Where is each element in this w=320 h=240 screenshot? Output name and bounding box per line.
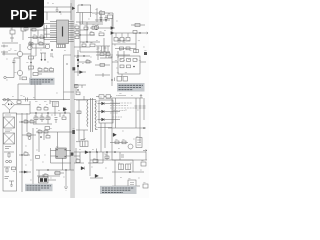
terminal J4 — [143, 184, 148, 188]
resistor R36 — [134, 50, 139, 53]
diode D13 — [144, 52, 147, 55]
rectifier frame — [99, 100, 113, 123]
SECTION bottom center — [37, 170, 68, 190]
wire — [108, 54, 146, 86]
node — [129, 171, 131, 173]
wire — [2, 101, 30, 114]
wire — [37, 170, 66, 186]
node — [47, 169, 48, 170]
resistor R76 — [75, 85, 79, 88]
resistor R15 — [50, 69, 54, 72]
resistor R10 — [29, 56, 34, 59]
SECTION transformer — [76, 96, 98, 140]
SECTION pwm ic — [28, 49, 74, 190]
resistor R67 — [76, 92, 80, 95]
label — [5, 147, 11, 149]
info box left — [29, 78, 55, 85]
resistor R45 — [38, 131, 42, 134]
SECTION center bottom grid — [30, 107, 70, 124]
capacitor C23 — [123, 77, 128, 82]
wire frame lower — [90, 160, 133, 172]
capacitor C20 — [100, 15, 103, 22]
wire frame — [64, 55, 75, 100]
regulator U4 — [136, 138, 142, 148]
info box right — [117, 83, 145, 92]
node — [83, 55, 84, 56]
node — [133, 66, 135, 68]
capacitor C22 — [117, 77, 122, 82]
wire — [38, 73, 42, 75]
resistor R79 — [45, 127, 50, 130]
SECTION bottom right corner — [112, 160, 148, 188]
wire — [76, 96, 98, 140]
inductor L2 crossed — [4, 133, 15, 144]
label B+ — [118, 95, 126, 97]
resistor array RN1 — [57, 45, 66, 48]
wire — [90, 8, 115, 28]
wire columns — [112, 98, 144, 128]
connector P1 — [40, 53, 46, 59]
ic U2 pads — [56, 149, 66, 157]
capacitor bank C24 — [116, 33, 128, 37]
resistor R73 — [120, 65, 124, 68]
diode D3 — [102, 118, 105, 121]
resistor R49 — [93, 160, 98, 163]
ground symbol top — [56, 7, 59, 11]
node — [89, 151, 91, 153]
wire bottom rail — [108, 127, 146, 129]
terminal arrow up — [140, 95, 142, 99]
wire — [116, 51, 130, 58]
ic U2 body — [56, 148, 66, 158]
SECTION output filter grid — [106, 95, 146, 129]
resistor R32 — [106, 53, 110, 56]
wire — [114, 78, 116, 82]
diode D6 — [24, 171, 27, 173]
capacitor C5 — [26, 98, 28, 102]
resistor R30 — [86, 61, 90, 64]
wire — [9, 181, 14, 187]
wire — [98, 104, 121, 128]
wire — [19, 113, 36, 192]
diode D16 — [80, 71, 83, 74]
resistor R27 — [75, 36, 79, 39]
wire — [76, 141, 80, 143]
resistor R3 — [40, 36, 44, 39]
SECTION right of filter — [19, 113, 36, 192]
wire top rail 2 — [44, 11, 71, 13]
capacitor C19 — [118, 38, 126, 42]
capacitor C10 — [135, 106, 138, 108]
node — [81, 4, 82, 5]
component reference labels — [6, 3, 147, 183]
terminal J1 — [1, 45, 8, 54]
wire — [74, 128, 147, 160]
label — [5, 114, 11, 116]
resistor R43 — [46, 117, 50, 120]
resistor R40 — [133, 59, 137, 62]
node — [30, 43, 31, 44]
capacitor C8 — [4, 167, 10, 173]
wire — [74, 71, 86, 73]
wire — [2, 84, 96, 100]
node — [79, 34, 80, 35]
SECTION line filter — [3, 113, 17, 191]
diode D11 — [111, 27, 114, 30]
resistor R58 — [76, 160, 80, 163]
resistor R50 — [27, 134, 31, 137]
label — [5, 130, 12, 132]
terminal J3 — [141, 162, 146, 166]
wire — [96, 46, 112, 58]
terminal J6 — [4, 76, 6, 78]
resistor R66 — [33, 73, 38, 76]
wire — [95, 19, 110, 21]
node — [51, 49, 53, 51]
node — [86, 41, 87, 42]
node — [66, 63, 67, 64]
capacitor C16 — [55, 118, 58, 124]
node barrier tap mid — [72, 67, 75, 70]
resistor R71 — [100, 64, 105, 67]
SECTION far right upper — [111, 18, 148, 58]
resistor R13 — [38, 69, 42, 72]
SECTION left-of-IC cluster — [2, 27, 66, 56]
capacitor C4 — [50, 54, 53, 56]
filter enclosure — [3, 113, 17, 191]
capacitor C3 — [13, 58, 21, 66]
resistor R5 — [39, 43, 43, 46]
terminal OUT1 — [143, 149, 147, 151]
resistor R28 — [84, 27, 88, 30]
wire — [74, 84, 86, 92]
resistor R44 — [62, 117, 66, 120]
resistor R6 — [10, 30, 15, 34]
resistor R12 — [22, 77, 27, 80]
node — [43, 37, 44, 38]
resistor R38 — [120, 59, 124, 62]
diode D1 — [102, 102, 105, 105]
node — [35, 112, 36, 113]
capacitor C7 — [4, 152, 14, 158]
node — [65, 169, 66, 170]
wire — [112, 18, 145, 58]
SECTION top-center — [72, 4, 103, 24]
diode D15 — [81, 167, 85, 170]
wire IC left connections — [44, 23, 50, 40]
transistor Q6 — [28, 45, 33, 50]
wire — [27, 100, 55, 132]
inductor L1 crossed — [4, 117, 15, 128]
resistor R70 — [135, 24, 140, 27]
wire — [76, 13, 103, 23]
resistor R35 — [126, 47, 130, 50]
resistor R16 — [17, 101, 21, 104]
node barrier tap — [72, 130, 75, 134]
wire — [38, 71, 54, 73]
resistor R14 — [44, 69, 48, 72]
resistor R54 — [44, 131, 48, 134]
wire — [96, 96, 112, 98]
fuse F1 — [6, 160, 9, 163]
resistor R42 — [40, 117, 44, 120]
resistor R72 — [24, 28, 28, 31]
terminal AC1 — [3, 99, 5, 101]
SECTION right-of-IC — [74, 22, 112, 66]
SECTION secondary rectifiers — [72, 100, 133, 172]
resistor R75 — [36, 156, 40, 159]
node barrier tap lower — [71, 153, 74, 156]
node — [111, 79, 112, 80]
wire — [7, 44, 32, 80]
resistor R56 — [115, 141, 119, 144]
resistor R19 — [30, 121, 34, 124]
wire — [95, 64, 110, 66]
resistor R7 — [21, 27, 26, 31]
wire top rail 1 — [44, 6, 71, 8]
capacitor C21 — [105, 15, 108, 22]
resistor R24 — [92, 26, 97, 29]
resistor R47 — [55, 172, 60, 175]
resistor R61 — [82, 44, 86, 47]
isolation barrier edge left — [70, 0, 72, 198]
node — [105, 19, 106, 20]
ic U1 body — [57, 20, 69, 44]
label — [5, 177, 10, 179]
SECTION bottom right mid — [74, 148, 116, 178]
transistor Q7 — [17, 70, 22, 75]
SECTION right lower — [74, 128, 147, 160]
node D9 — [77, 59, 79, 61]
transformer T1 primary — [87, 100, 88, 127]
node — [114, 151, 116, 153]
wire — [2, 27, 57, 56]
node — [139, 32, 140, 33]
wire top rail — [106, 97, 143, 99]
fusible box — [53, 102, 59, 107]
SECTION extras — [24, 28, 125, 76]
node — [21, 171, 22, 172]
node top rail junction — [59, 11, 61, 13]
resistor R26 — [75, 31, 79, 34]
transistor Q1 — [45, 44, 50, 49]
isolation barrier edge right — [73, 0, 75, 198]
node — [21, 154, 22, 155]
resistor R25 — [75, 26, 79, 29]
node — [64, 112, 65, 113]
jack J2a — [119, 164, 124, 170]
capacitor C11 — [139, 106, 142, 108]
SECTION mains input — [2, 84, 96, 132]
resistor R33 — [133, 31, 137, 34]
resistor R52 — [37, 108, 41, 111]
diode D2 — [102, 110, 105, 113]
resistor R62 — [90, 44, 95, 47]
wire rail — [30, 107, 70, 124]
transistor Q3 — [94, 25, 99, 30]
net list text — [110, 103, 134, 117]
wire vertical into IC — [70, 3, 72, 20]
resistor R4 — [29, 43, 33, 46]
node — [47, 112, 48, 113]
page background — [0, 0, 149, 198]
capacitor C12 — [143, 106, 146, 108]
resistor R53 — [44, 108, 48, 111]
diode D4 — [85, 151, 89, 154]
resistor R64 — [77, 111, 81, 114]
node — [96, 151, 98, 153]
SECTION tall frame — [64, 55, 75, 100]
transistor Q2 — [17, 51, 22, 56]
resistor R18 — [24, 121, 28, 124]
capacitor C2 — [11, 26, 13, 42]
node — [106, 151, 108, 153]
resistor R60 — [99, 33, 104, 36]
resistor R41 — [34, 117, 38, 120]
info box bottom left — [25, 184, 53, 191]
jack J2b — [126, 164, 131, 170]
wire labels under rail — [35, 101, 53, 103]
resistor R74 — [127, 65, 131, 68]
wire — [33, 113, 74, 190]
resistor R57 — [122, 141, 126, 144]
PDF badge — [0, 0, 44, 28]
capacitor bank C25 — [97, 46, 109, 52]
ic U1 pins left — [50, 22, 57, 42]
SECTION far right mid — [72, 54, 146, 98]
resistor R51 — [24, 153, 28, 156]
node — [30, 62, 31, 63]
info box bottom right — [100, 186, 137, 194]
resistor R29 — [90, 33, 94, 36]
ic U2 pins — [51, 151, 72, 157]
isolation barrier band — [71, 0, 75, 198]
bridge rectifier BR1 — [5, 100, 15, 110]
diode D8 — [72, 7, 75, 10]
node — [77, 89, 78, 90]
node — [100, 19, 101, 20]
svg-text:PDF: PDF — [10, 7, 36, 22]
wire — [112, 160, 144, 186]
resistor R77 — [99, 95, 104, 98]
optocoupler U3 — [39, 177, 49, 183]
capacitor C17 — [121, 155, 124, 157]
wire rail drop — [46, 12, 48, 20]
resistor R11 — [29, 66, 34, 69]
wire — [74, 148, 107, 178]
diode D12 — [111, 32, 114, 35]
wire — [74, 50, 111, 77]
connector CN4 — [80, 141, 88, 147]
resistor R22 — [100, 12, 105, 15]
resistor R55 — [46, 136, 50, 139]
diode D5 — [95, 174, 99, 177]
connector CN2 — [128, 180, 136, 188]
node — [77, 55, 78, 56]
resistor R2 — [33, 36, 37, 39]
transistor Q5 — [128, 144, 133, 149]
transformer T1 secondary — [95, 101, 96, 129]
resistor R59 — [105, 156, 109, 159]
SECTION far-left upper — [1, 26, 26, 54]
ground — [64, 187, 68, 190]
ic U1 pins right — [69, 22, 74, 42]
transformer T1 core — [91, 98, 93, 132]
resistor R78 — [106, 95, 111, 98]
node D10 — [77, 65, 79, 67]
diode D7 — [63, 108, 67, 112]
diode D14 — [113, 133, 117, 137]
SECTION center-left mid — [38, 53, 54, 72]
fuse F2 — [28, 137, 31, 140]
node — [40, 136, 42, 138]
wire — [10, 31, 23, 40]
resistor R31 — [100, 53, 104, 56]
wire secondary drops — [79, 100, 105, 152]
terminal J5 — [2, 53, 17, 56]
SECTION left mid — [2, 44, 34, 80]
resistor R34 — [120, 47, 124, 50]
resistor R39 — [127, 59, 131, 62]
SECTION right mid — [74, 50, 111, 77]
resistor R1 — [32, 29, 36, 32]
resistor R17 — [12, 167, 16, 170]
node — [143, 127, 145, 129]
node — [21, 121, 22, 122]
terminal AC2 — [7, 99, 9, 101]
SECTION top-right — [90, 8, 115, 29]
wire bus — [74, 22, 110, 52]
resistor R23 — [108, 15, 113, 19]
terminal T2 — [145, 32, 148, 34]
frame FR2 — [118, 56, 140, 74]
wire secondary top frame — [76, 5, 92, 24]
resistor R48 — [44, 175, 48, 178]
